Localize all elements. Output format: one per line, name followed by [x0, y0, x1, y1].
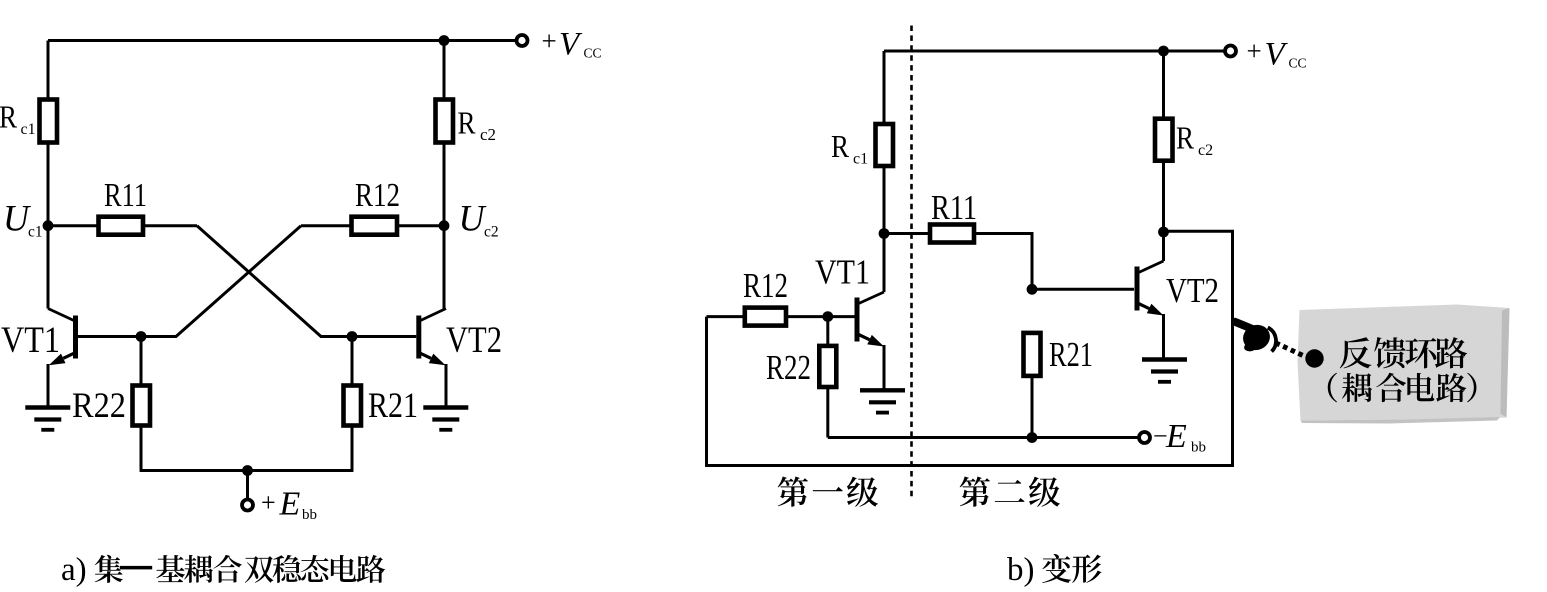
- wire: VT1 emitter to ground (a): [47, 364, 50, 408]
- wire: stub to Ebb terminal (a): [246, 471, 249, 500]
- svg-text:R12: R12: [743, 266, 788, 305]
- svg-text:VT2: VT2: [1166, 271, 1219, 310]
- svg-text:+: +: [1247, 36, 1262, 66]
- transistor VT2 (b): [1137, 261, 1164, 311]
- wire: VT2 collector vertical (b): [1162, 232, 1165, 261]
- svg-text:R: R: [831, 128, 850, 164]
- svg-text:bb: bb: [1191, 440, 1206, 456]
- wire: cross diagonal R12 to VT1 base (a): [141, 226, 301, 337]
- svg-text:R: R: [0, 99, 18, 135]
- pointer dotted line: [1276, 343, 1305, 356]
- ground under VT1 (b): [860, 390, 905, 412]
- label Rc1 (a): [0, 99, 36, 139]
- resistor R21 (b): [1024, 333, 1041, 376]
- wire: R22 to bottom rail (a): [140, 426, 143, 471]
- svg-text:VT2: VT2: [446, 320, 502, 361]
- wire: Rc2 to VT2 collector junction (b): [1162, 161, 1165, 232]
- wire: R11 to cross diagonal (a): [143, 224, 197, 227]
- wire: base junction to R21 (a): [351, 337, 354, 386]
- wire: left rail Uc1 to VT1 collector (a): [47, 226, 50, 309]
- svg-text:+: +: [542, 26, 557, 56]
- callout: feedback loop note box: [1298, 305, 1510, 424]
- wire: top Vcc rail (circuit a): [48, 39, 516, 42]
- node: Ebb rail junction (b): [1027, 432, 1038, 443]
- wire: base junction to R22 (a): [140, 337, 143, 386]
- svg-text:c2: c2: [484, 224, 499, 241]
- svg-text:E: E: [279, 486, 301, 523]
- wire: junction to R11 (b): [884, 232, 930, 235]
- wire: bottom rail (a): [140, 469, 354, 472]
- svg-text:R21: R21: [1049, 335, 1093, 374]
- node: VT2 base junction (a): [347, 331, 358, 342]
- node Uc2 (a): [439, 220, 450, 231]
- node: Vcc junction (b): [1158, 46, 1169, 57]
- svg-text:R11: R11: [104, 177, 147, 214]
- wire: base junction to R22 (b): [826, 317, 829, 346]
- label Rc1 (b): [831, 128, 868, 168]
- label Rc2 (b): [1176, 120, 1213, 160]
- svg-text:+: +: [261, 488, 276, 517]
- svg-text:c2: c2: [1198, 142, 1213, 159]
- node: VT1 collector junction (b): [879, 228, 890, 239]
- terminal +Ebb (a): [242, 500, 253, 511]
- resistor R11 (a): [99, 217, 144, 235]
- resistor Rc2 (b): [1155, 119, 1173, 161]
- wire: R12 to Uc2 (a): [397, 224, 444, 227]
- resistor R22 (b): [819, 346, 836, 387]
- ground under VT2 (b): [1142, 360, 1187, 382]
- transistor VT1 (a): [48, 309, 76, 359]
- svg-text:R21: R21: [368, 385, 418, 425]
- wire: R12 to cross diagonal (a): [301, 224, 352, 227]
- svg-text:CC: CC: [1289, 56, 1307, 71]
- resistor R12 (b): [745, 308, 786, 326]
- svg-text:R: R: [1176, 120, 1195, 156]
- caption a): [61, 552, 87, 588]
- wire: Uc1 to R11 (a): [48, 224, 99, 227]
- emitter arrow VT1 (a): [63, 352, 76, 358]
- resistor Rc2 (a): [436, 100, 454, 143]
- wire: R11 to corner (b): [974, 234, 1032, 290]
- svg-text:b): b): [1007, 552, 1035, 587]
- callout text line 1: feedback loop: [1340, 337, 1372, 368]
- label +Vcc (circuit a): [542, 26, 602, 63]
- emitter arrow VT2 (b): [1138, 303, 1150, 309]
- wire: VT1 base lead (a): [78, 335, 142, 338]
- svg-text:R22: R22: [72, 385, 126, 425]
- wire: right rail top (a): [443, 41, 446, 100]
- resistor R22 (a): [133, 386, 151, 426]
- wire: VT2 base lead (a): [352, 335, 416, 338]
- wire: VT1 emitter to ground (b): [883, 345, 886, 390]
- caption text: variant (b): [1042, 554, 1071, 583]
- wire: right rail Uc2 to VT2 collector (a): [443, 226, 446, 309]
- label first stage (b): [778, 477, 808, 507]
- wire: R12 left wire to box (b): [707, 315, 745, 318]
- resistor R21 (a): [344, 386, 362, 426]
- wire: VT2 emitter to ground (b): [1162, 314, 1165, 360]
- label Uc1 (a): [3, 199, 43, 241]
- label +Ebb (a): [261, 486, 317, 524]
- transistor VT2 (a): [418, 309, 446, 359]
- svg-text:U: U: [3, 199, 31, 240]
- wire: top Vcc rail (b): [884, 50, 1225, 53]
- wire: feedback loop box (b): [707, 231, 1233, 465]
- svg-text:bb: bb: [302, 507, 317, 523]
- pointer hand icon: [1235, 321, 1276, 354]
- svg-text:R11: R11: [931, 188, 977, 227]
- wire: R21 to Ebb rail (b): [1031, 376, 1034, 438]
- terminal -Ebb (b): [1139, 432, 1150, 443]
- node Uc1 (a): [43, 220, 54, 231]
- resistor Rc1 (a): [40, 100, 58, 143]
- wire: right rail Rc2 to Uc2 (a): [443, 143, 446, 226]
- terminal +Vcc (b): [1225, 46, 1236, 57]
- node: R21 top junction (b): [1027, 284, 1038, 295]
- wire: R21 to bottom rail (a): [351, 426, 354, 471]
- terminal +Vcc (circuit a): [517, 35, 528, 46]
- wire: junction to VT2 base (b): [1032, 288, 1134, 291]
- wire: cross diagonal R11 to VT2 base (a): [197, 226, 352, 337]
- callout text line 2: (coupling circuit): [1328, 373, 1337, 403]
- label +Vcc (b): [1247, 36, 1307, 73]
- resistor R12 (a): [352, 217, 398, 235]
- node: Ebb junction (a): [242, 465, 253, 476]
- svg-text:E: E: [1165, 418, 1187, 455]
- divider: dashed stage separator (b): [910, 26, 913, 498]
- svg-text:c1: c1: [21, 121, 36, 138]
- label -Ebb (b): [1153, 418, 1206, 456]
- node: VT1 base junction (a): [136, 331, 147, 342]
- wire: VT1 collector vertical (b): [883, 234, 886, 293]
- wire: R22 to Ebb rail (b): [826, 387, 829, 438]
- label Rc2 (a): [458, 105, 497, 145]
- svg-text:U: U: [459, 199, 487, 240]
- ground under VT2 (a): [423, 408, 468, 430]
- node: VT1 base junction (b): [822, 311, 833, 322]
- wire: VT2 emitter to ground (a): [445, 364, 448, 408]
- label second stage (b): [960, 477, 990, 507]
- transistor VT1 (b): [857, 292, 884, 342]
- emitter arrow VT2 (a): [418, 352, 431, 358]
- svg-text:a): a): [61, 552, 87, 587]
- svg-text:VT1: VT1: [1, 320, 60, 361]
- svg-text:CC: CC: [584, 46, 602, 61]
- resistor R11 (b): [930, 225, 974, 243]
- label Uc2 (a): [459, 199, 499, 241]
- wire: left rail Rc1 to Uc1 (a): [47, 143, 50, 226]
- emitter arrow VT1 (b): [858, 334, 870, 340]
- ground under VT1 (a): [25, 408, 70, 430]
- pointer end dot: [1305, 349, 1323, 367]
- wire: Ebb rail (b): [828, 436, 1138, 439]
- caption text: ji-ji coupling bistable circuit (a): [95, 555, 386, 583]
- wire: left rail upper (b): [883, 51, 886, 124]
- node: Vcc junction (circuit a): [439, 35, 450, 46]
- wire: Rc1 to VT1 collector junction (b): [883, 166, 886, 234]
- svg-text:c2: c2: [480, 125, 496, 144]
- resistor Rc1 (b): [876, 124, 894, 166]
- svg-text:R22: R22: [766, 348, 811, 387]
- wire: Rc2 top (b): [1162, 51, 1165, 119]
- svg-text:VT1: VT1: [815, 253, 870, 292]
- node: VT2 collector junction (b): [1158, 227, 1169, 238]
- wire: left rail upper (a): [47, 41, 50, 100]
- svg-text:R12: R12: [355, 177, 400, 214]
- wire: R12 to base junction (b): [786, 315, 855, 318]
- svg-text:c1: c1: [853, 151, 868, 168]
- svg-text:c1: c1: [28, 224, 43, 241]
- svg-text:R: R: [458, 105, 477, 141]
